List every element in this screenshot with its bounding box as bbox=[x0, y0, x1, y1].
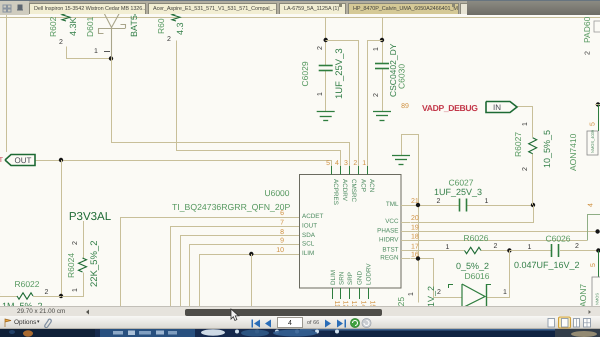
wire MOSFET Q2 drain stub bbox=[598, 251, 600, 278]
wire ILIM net: pin 10 to bottom bbox=[200, 255, 300, 307]
svg-text:8: 8 bbox=[280, 229, 284, 236]
svg-text:PHASE: PHASE bbox=[377, 228, 398, 235]
wire ILIM branch down bbox=[251, 254, 253, 306]
node REGN junction bbox=[416, 256, 420, 260]
toolbar bbox=[0, 316, 600, 329]
desktop photo strip bbox=[0, 329, 600, 337]
svg-text:IN: IN bbox=[493, 103, 501, 112]
node right edge net VADP bbox=[596, 102, 600, 106]
U6000 right pin stubs bbox=[401, 205, 410, 207]
svg-text:1UF_25V_3: 1UF_25V_3 bbox=[334, 48, 345, 99]
svg-text:C6030: C6030 bbox=[397, 64, 407, 89]
svg-text:NMOS: NMOS bbox=[595, 293, 600, 305]
capacitor C6027 bbox=[459, 199, 461, 212]
svg-text:AON7: AON7 bbox=[578, 284, 588, 306]
svg-text:U6000: U6000 bbox=[264, 188, 289, 198]
wire VCC pin to junction column bbox=[411, 206, 534, 223]
svg-text:SRN: SRN bbox=[338, 271, 345, 285]
svg-text:TI_BQ24736RGRR_QFN_20P: TI_BQ24736RGRR_QFN_20P bbox=[172, 202, 291, 212]
connector IN bbox=[486, 102, 517, 113]
svg-text:ACDET: ACDET bbox=[302, 213, 323, 220]
svg-text:R6025: R6025 bbox=[396, 297, 406, 306]
svg-text:1: 1 bbox=[317, 92, 324, 96]
wire C6029 lower lead bbox=[325, 71, 327, 112]
svg-text:ILIM: ILIM bbox=[302, 250, 314, 257]
node BTST/R6026/C6026/D6016 junction bbox=[507, 248, 511, 252]
svg-text:2: 2 bbox=[353, 160, 357, 167]
svg-text:1: 1 bbox=[446, 244, 450, 251]
svg-text:IOUT: IOUT bbox=[302, 222, 317, 229]
svg-text:LODRV: LODRV bbox=[366, 263, 373, 285]
svg-text:R6024: R6024 bbox=[66, 253, 76, 278]
svg-text:BTST: BTST bbox=[382, 247, 398, 254]
svg-text:89: 89 bbox=[401, 103, 409, 110]
svg-text:4: 4 bbox=[335, 160, 339, 167]
svg-text:10_5%_5: 10_5%_5 bbox=[542, 130, 552, 168]
wire right edge stub bbox=[595, 104, 600, 106]
svg-text:1: 1 bbox=[373, 47, 380, 51]
wire PHASE pin to right edge bbox=[410, 231, 598, 233]
svg-text:VADP_DEBUG: VADP_DEBUG bbox=[422, 103, 478, 113]
svg-text:ACDRV: ACDRV bbox=[341, 179, 348, 202]
svg-text:2: 2 bbox=[59, 39, 63, 46]
wire TML pin to C6027 bbox=[410, 205, 460, 207]
resistor R602 (cut at top) bbox=[62, 11, 70, 21]
wire node to C6026 bbox=[509, 250, 551, 252]
wire ACN branch: C6030 junction to pin 1 bbox=[368, 41, 383, 169]
resistor R601 (cut at top) bbox=[172, 11, 180, 21]
svg-text:10: 10 bbox=[276, 247, 284, 254]
wire ACDET net: pin 6 to bottom bbox=[121, 218, 300, 307]
svg-text:ACP: ACP bbox=[359, 179, 366, 192]
wire C6030 column bbox=[382, 17, 384, 64]
svg-text:AON7410: AON7410 bbox=[568, 133, 578, 171]
node ILIM branch junction bbox=[249, 252, 253, 256]
svg-text:19: 19 bbox=[411, 225, 419, 232]
wire MOSFET Q1 gate lead bbox=[588, 215, 600, 241]
node C6030 top junction bbox=[380, 38, 384, 42]
svg-text:ACN: ACN bbox=[368, 179, 375, 193]
svg-text:5: 5 bbox=[590, 122, 597, 126]
svg-text:6: 6 bbox=[280, 210, 284, 217]
svg-text:7: 7 bbox=[280, 219, 284, 226]
node C6027/R6027/VCC junction bbox=[531, 203, 535, 207]
svg-text:4.3K: 4.3K bbox=[68, 17, 78, 36]
node OUT junction bbox=[59, 158, 63, 162]
wire ACDRV net: R601 to pin 4 bbox=[177, 41, 341, 169]
resistor R6027 bbox=[529, 138, 537, 154]
wire SCL net: pin 9 to bottom bbox=[190, 245, 300, 307]
svg-text:1: 1 bbox=[528, 244, 532, 251]
svg-text:CMSRC: CMSRC bbox=[350, 179, 357, 203]
wire top bus bbox=[0, 17, 600, 19]
resistor R6024 bbox=[79, 258, 87, 272]
svg-text:SDA: SDA bbox=[302, 232, 316, 239]
wire R602 to D601 junction bbox=[67, 47, 112, 59]
svg-text:REGN: REGN bbox=[380, 255, 399, 262]
connector OUT bbox=[5, 155, 35, 166]
capacitor C6026 bbox=[551, 244, 553, 257]
wire ground link to TML/REGN column bbox=[402, 135, 419, 303]
svg-text:18: 18 bbox=[411, 234, 419, 241]
svg-text:1: 1 bbox=[408, 292, 415, 296]
svg-text:4: 4 bbox=[588, 203, 595, 207]
svg-text:SCL: SCL bbox=[302, 241, 315, 248]
svg-text:5: 5 bbox=[326, 160, 330, 167]
svg-text:2: 2 bbox=[437, 289, 441, 296]
U6000 top pin stubs bbox=[331, 166, 333, 175]
svg-text:T: T bbox=[0, 157, 4, 164]
wire P3V3AL tick to R6024 bbox=[83, 221, 85, 258]
svg-text:TML: TML bbox=[386, 201, 399, 208]
svg-text:NMOS_4039: NMOS_4039 bbox=[590, 129, 595, 153]
ground near U6000 ACN bbox=[392, 155, 410, 157]
svg-text:2: 2 bbox=[585, 51, 592, 55]
wire C6026 to right edge bbox=[560, 250, 598, 252]
svg-text:1: 1 bbox=[0, 289, 1, 296]
node C6029 top junction bbox=[324, 38, 328, 42]
node R6022/R6024 junction bbox=[59, 294, 63, 298]
svg-text:HIDRV: HIDRV bbox=[379, 237, 399, 244]
tab bar bbox=[0, 0, 600, 14]
wire MOSFET Q1 drain stub bbox=[598, 105, 600, 132]
svg-text:VCC: VCC bbox=[385, 218, 399, 225]
diode D601 BAT54 dual bbox=[104, 13, 112, 28]
svg-text:2: 2 bbox=[437, 198, 441, 205]
svg-text:GND: GND bbox=[357, 271, 364, 285]
capacitor C6029 bbox=[319, 65, 333, 67]
wire IOUT net: pin 7 to bottom bbox=[171, 227, 300, 307]
mouse cursor bbox=[229, 308, 249, 328]
svg-text:PAD60: PAD60 bbox=[582, 16, 592, 43]
svg-text:1: 1 bbox=[362, 160, 366, 167]
svg-text:1: 1 bbox=[485, 198, 489, 205]
svg-text:21: 21 bbox=[411, 198, 419, 205]
wire REGN pin to D6016 anode bbox=[411, 259, 463, 298]
wire R6024 bottom lead to junction bbox=[62, 273, 84, 297]
svg-text:D601: D601 bbox=[85, 16, 95, 37]
svg-text:SRP: SRP bbox=[347, 272, 354, 285]
svg-text:C6029: C6029 bbox=[300, 61, 310, 86]
resistor R6022 bbox=[17, 293, 33, 299]
svg-text:C6026: C6026 bbox=[545, 234, 570, 244]
node C6026 right edge bbox=[596, 248, 600, 252]
svg-text:2: 2 bbox=[45, 289, 49, 296]
wire D6016 cathode to BTST node bbox=[487, 251, 510, 298]
op-amp U6000 body bbox=[300, 175, 402, 289]
svg-text:2: 2 bbox=[494, 243, 498, 250]
svg-text:2: 2 bbox=[373, 93, 380, 97]
svg-text:0.047UF_16V_2: 0.047UF_16V_2 bbox=[514, 260, 580, 270]
horizontal scrollbar bbox=[0, 306, 600, 316]
ground C6029 bbox=[317, 111, 335, 113]
node PHASE right edge bbox=[595, 229, 599, 233]
wire IN connector to R6027 bbox=[518, 107, 533, 138]
svg-text:5: 5 bbox=[590, 263, 597, 267]
U6000 bottom pin stubs bbox=[332, 288, 334, 299]
svg-text:22K_5%_2: 22K_5%_2 bbox=[89, 241, 100, 287]
svg-text:2: 2 bbox=[575, 243, 579, 250]
svg-text:2: 2 bbox=[522, 167, 529, 171]
svg-text:C6027: C6027 bbox=[448, 178, 473, 188]
svg-text:20: 20 bbox=[411, 215, 419, 222]
wire SDA net: pin 8 to bottom bbox=[181, 236, 300, 307]
svg-text:2: 2 bbox=[72, 241, 79, 245]
node TML junction bbox=[416, 203, 420, 207]
wire C6027 to node bbox=[467, 205, 533, 207]
wire left edge vertical bbox=[6, 13, 8, 152]
svg-text:BAT54: BAT54 bbox=[129, 13, 139, 37]
diode D6016 bbox=[462, 284, 485, 308]
svg-text:DLIM: DLIM bbox=[330, 270, 337, 285]
svg-text:1: 1 bbox=[503, 289, 507, 296]
wire CMSRC net: D601 junction to pin 3 bbox=[112, 59, 350, 169]
svg-text:0_5%_2: 0_5%_2 bbox=[456, 261, 489, 271]
capacitor C6030 bbox=[375, 63, 389, 65]
wire HIDRV pin to MOSFET gate bbox=[410, 240, 587, 242]
svg-text:1: 1 bbox=[522, 122, 529, 126]
ground C6030 bbox=[373, 111, 391, 113]
wire C6030 lower lead bbox=[382, 69, 384, 111]
svg-text:1: 1 bbox=[72, 288, 79, 292]
svg-text:9: 9 bbox=[280, 238, 284, 245]
svg-text:OUT: OUT bbox=[15, 156, 32, 165]
resistor R6026 bbox=[465, 247, 482, 253]
svg-text:ACPRES: ACPRES bbox=[332, 179, 339, 205]
svg-text:R602: R602 bbox=[48, 16, 58, 37]
wire R6026 to node bbox=[481, 250, 509, 252]
svg-text:R6027: R6027 bbox=[513, 132, 523, 157]
wire OUT net to pin 5 ACPRES bbox=[36, 161, 332, 169]
svg-text:3: 3 bbox=[344, 160, 348, 167]
svg-text:D6016: D6016 bbox=[464, 271, 489, 281]
svg-text:2: 2 bbox=[167, 36, 171, 43]
svg-text:R6026: R6026 bbox=[463, 233, 488, 243]
wire R6022 left lead bbox=[0, 296, 17, 298]
wire R6022 to junction bbox=[33, 296, 61, 298]
svg-text:R6022: R6022 bbox=[14, 279, 39, 289]
svg-text:17: 17 bbox=[411, 244, 419, 251]
svg-text:1UF_25V_3: 1UF_25V_3 bbox=[434, 187, 482, 197]
svg-text:2: 2 bbox=[317, 46, 324, 50]
svg-text:P3V3AL: P3V3AL bbox=[69, 211, 112, 223]
svg-text:R60: R60 bbox=[156, 18, 166, 34]
svg-text:1: 1 bbox=[94, 48, 98, 55]
svg-text:4.3: 4.3 bbox=[175, 22, 185, 35]
wire OUT junction down to R6022/R6024 node bbox=[61, 160, 63, 296]
wire ACP branch: C6029 junction to pin 2 bbox=[326, 41, 359, 169]
wire R6027 bottom lead bbox=[532, 154, 534, 205]
wire BTST pin to R6026 bbox=[410, 250, 465, 252]
svg-text:1V_2: 1V_2 bbox=[426, 286, 436, 306]
svg-text:16: 16 bbox=[411, 252, 419, 259]
wire C6029 column bbox=[325, 17, 327, 65]
node D601/R602 junction bbox=[109, 56, 113, 60]
